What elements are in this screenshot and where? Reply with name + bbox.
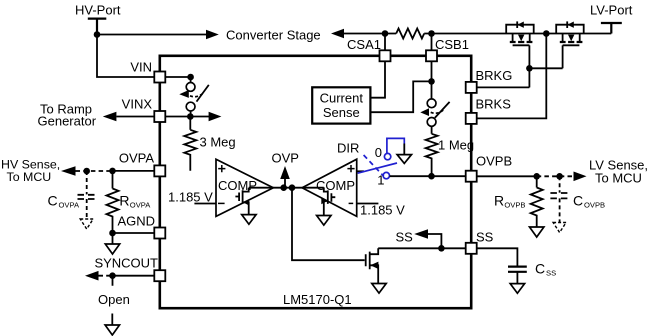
- svg-text:SYNCOUT: SYNCOUT: [94, 256, 158, 271]
- svg-text:VINX: VINX: [122, 97, 153, 112]
- wire OVPA dashed segment: [76, 170, 113, 172]
- capacitor COVPA (dashed optional): [78, 171, 97, 229]
- svg-text:COMP: COMP: [218, 178, 257, 193]
- pin CSA1: [380, 50, 391, 61]
- arrowhead HV sense: [61, 166, 76, 176]
- wire AGND row: [113, 232, 155, 234]
- svg-text:To MCU: To MCU: [7, 170, 52, 184]
- ground below Q3: [372, 284, 386, 294]
- svg-text:BRKS: BRKS: [476, 96, 512, 111]
- ground DIR 0 contact: [397, 155, 411, 164]
- junction HV-Port node: [94, 31, 101, 38]
- junction COVPA node: [83, 168, 90, 175]
- wire OVP output line: [249, 187, 324, 189]
- wire ground stem: [403, 144, 405, 155]
- svg-text:Open: Open: [98, 292, 130, 307]
- wire SYNCOUT solid to pin: [113, 275, 155, 277]
- node SYNCOUT row: [99, 275, 113, 277]
- ground below ROVPB: [530, 227, 544, 237]
- wire 1.185V to COMP A minus: [194, 203, 216, 205]
- pin OVPB: [466, 171, 477, 182]
- ground below COMP B FET: [317, 216, 331, 226]
- wire CSA1 stub: [384, 34, 386, 51]
- junction CSB1 top node: [428, 30, 435, 37]
- svg-text:C: C: [48, 193, 58, 209]
- svg-text:OVPB: OVPB: [504, 201, 525, 210]
- port symbol HV-Port: [88, 19, 107, 35]
- svg-text:HV-Port: HV-Port: [75, 3, 121, 18]
- wire Q3 drain to SS pin: [378, 247, 466, 249]
- pin CSB1: [426, 50, 437, 61]
- svg-text:R: R: [119, 193, 129, 209]
- junction SYNCOUT node: [109, 272, 116, 279]
- pin AGND: [154, 228, 165, 239]
- svg-text:BRKG: BRKG: [476, 68, 513, 83]
- pin OVPA: [154, 165, 165, 176]
- arrowhead SS internal: [414, 229, 428, 239]
- wire VINX row inside: [165, 116, 209, 118]
- wire VIN stub inside: [165, 76, 190, 78]
- junction gate-drive node: [289, 184, 296, 191]
- switch DIR contact 1 (blue): [383, 172, 389, 178]
- svg-text:OVPA: OVPA: [119, 151, 154, 166]
- transistor COMP A output FET: [235, 188, 249, 215]
- svg-text:SS: SS: [546, 269, 556, 278]
- svg-text:Generator: Generator: [38, 114, 97, 129]
- junction CSA1 top node: [382, 30, 389, 37]
- resistor ROVPB: [536, 176, 538, 187]
- resistor shunt RCS: [396, 29, 424, 39]
- switch SW DIR blade (blue): [358, 163, 397, 173]
- resistor R 3 Meg: [189, 117, 191, 130]
- junction OVP node: [280, 184, 287, 191]
- junction SS node: [438, 245, 445, 252]
- wire top power rail: [343, 33, 611, 35]
- wire OVPB row outside solid: [477, 175, 536, 177]
- svg-text:DIR: DIR: [337, 141, 359, 156]
- ground below CSS: [510, 284, 524, 294]
- capacitor CSS: [508, 267, 527, 272]
- svg-text:0: 0: [375, 145, 382, 160]
- svg-text:SS: SS: [396, 230, 414, 245]
- svg-text:LV-Port: LV-Port: [590, 3, 633, 18]
- arrowhead SYNCOUT: [85, 271, 99, 281]
- svg-text:Current: Current: [320, 90, 364, 105]
- svg-text:OVPA: OVPA: [59, 201, 80, 210]
- transistor Q1 LV break MOSFET: [506, 21, 534, 45]
- svg-text:CSA1: CSA1: [347, 37, 381, 52]
- arrowhead to ramp generator: [103, 112, 117, 122]
- pin BRKG: [466, 82, 477, 93]
- svg-text:3 Meg: 3 Meg: [200, 135, 236, 150]
- pin VINX: [154, 111, 165, 122]
- pin BRKS: [466, 113, 477, 124]
- wire SS pin to CSS: [477, 248, 517, 266]
- svg-text:Sense: Sense: [323, 105, 360, 120]
- plus symbol COMP B: [347, 165, 354, 172]
- wire to Converter Stage: [97, 34, 207, 36]
- wire CSA1 into current sense: [370, 61, 385, 97]
- arrowhead VINX internal right: [209, 112, 222, 122]
- wire Q1 gate lead: [528, 45, 530, 87]
- wire Q2 gate lead: [562, 45, 564, 68]
- svg-text:OVPA: OVPA: [130, 201, 151, 210]
- pin SYNCOUT: [154, 270, 165, 281]
- svg-text:OVPB: OVPB: [584, 201, 605, 210]
- svg-text:C: C: [573, 193, 583, 209]
- transistor Q3 SS pulldown FET: [366, 248, 379, 283]
- wire gate drive to SS FET: [292, 188, 365, 261]
- svg-text:To MCU: To MCU: [595, 171, 642, 186]
- minus symbol COMP B: [349, 202, 354, 204]
- arrowhead to Converter Stage: [206, 30, 219, 40]
- minus symbol COMP A: [218, 202, 225, 204]
- svg-text:C: C: [535, 261, 545, 277]
- wire CSB1 into box: [370, 61, 431, 112]
- resistor ROVPA: [112, 171, 114, 189]
- svg-text:1.185 V: 1.185 V: [360, 203, 405, 218]
- junction CSB1 inner node: [428, 78, 435, 85]
- switch SW DIR dashed travel (blue): [364, 155, 384, 176]
- junction Q1-Q2 source node: [543, 30, 550, 37]
- block Current Sense: [312, 87, 370, 123]
- svg-text:OVPB: OVPB: [476, 154, 512, 169]
- wire BRKG net: [477, 68, 562, 87]
- IC U1 LM5170-Q1 outline: [160, 56, 471, 308]
- switch SW2 CSB1-1Meg: [420, 81, 449, 126]
- wire COMP B plus stub: [357, 170, 364, 172]
- wire contact 0 to ground (blue): [387, 138, 404, 153]
- pin VIN: [154, 72, 165, 83]
- svg-text:1.185 V: 1.185 V: [168, 190, 213, 205]
- junction ROVPB node: [533, 173, 540, 180]
- wire OVPB row outside dashed: [537, 175, 574, 177]
- op-amp U2 COMP A (left comparator): [216, 159, 273, 216]
- junction 1Meg bottom node: [428, 173, 435, 180]
- svg-text:AGND: AGND: [117, 214, 155, 229]
- wire OVPA solid segment: [113, 170, 155, 172]
- wire OVPB row inside: [390, 175, 466, 177]
- wire CSB1 stub: [431, 34, 433, 51]
- svg-text:OVP: OVP: [272, 150, 299, 165]
- wire SS arrow branch: [428, 234, 441, 248]
- svg-text:R: R: [494, 193, 504, 209]
- svg-text:CSB1: CSB1: [435, 37, 469, 52]
- wire COMP B minus to 1.185V: [357, 203, 379, 205]
- svg-text:SS: SS: [476, 230, 494, 245]
- svg-text:COMP: COMP: [316, 178, 355, 193]
- transistor COMP B output FET: [321, 188, 335, 216]
- svg-text:Converter Stage: Converter Stage: [226, 28, 321, 43]
- wire BRKS net: [477, 34, 546, 119]
- svg-text:VIN: VIN: [130, 60, 152, 75]
- switch DIR contact 0 (blue): [384, 153, 390, 159]
- wire VINX row outside: [116, 116, 154, 118]
- ground open triangle below Open: [105, 325, 119, 335]
- capacitor COVPB (dashed optional): [550, 176, 569, 232]
- transistor Q2 LV break MOSFET: [556, 21, 584, 45]
- op-amp U3 COMP B (right comparator): [302, 159, 357, 216]
- junction VINX node: [187, 113, 194, 120]
- wire SYNCOUT open stub: [111, 276, 113, 325]
- arrowhead LV sense: [574, 172, 587, 182]
- port symbol LV-Port: [601, 23, 622, 34]
- junction AGND node: [109, 230, 116, 237]
- ground below AGND: [112, 233, 114, 244]
- wire OVP stem: [284, 179, 286, 188]
- arrowhead from shunt to Converter Stage: [331, 29, 344, 39]
- pin SS: [466, 243, 477, 254]
- switch SW1 VIN-VINX: [179, 77, 209, 117]
- junction ROVPA node: [109, 168, 116, 175]
- junction COVPB node: [556, 173, 563, 180]
- arrowhead OVP up: [280, 166, 290, 179]
- junction VIN switch node: [187, 74, 194, 81]
- wire HV-Port vertical to VIN row: [97, 35, 154, 78]
- resistor R 1 Meg: [431, 126, 433, 134]
- ground below COMP A FET: [242, 215, 256, 225]
- svg-text:1 Meg: 1 Meg: [438, 138, 474, 153]
- plus symbol COMP A: [218, 165, 225, 172]
- svg-text:LM5170-Q1: LM5170-Q1: [283, 292, 352, 307]
- junction BRKG gate node: [526, 65, 533, 72]
